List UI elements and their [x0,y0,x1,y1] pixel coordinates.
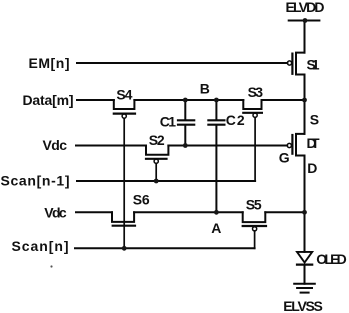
wire Scan[n-1] row [77,180,255,182]
node Scan[n] gate junction [122,246,127,251]
svg-text:S1: S1 [307,57,320,73]
wire gate line S3 to Scan[n-1] [254,117,256,181]
wire right column [304,21,306,284]
svg-text:ELVDD: ELVDD [286,0,325,15]
node B junction [214,98,219,103]
wire gate line S5 to Scan[n] [254,231,256,248]
wire Vdc2/A row [76,211,305,213]
transistor S3 [243,100,262,117]
svg-text:Scan[n-1]: Scan[n-1] [1,173,70,189]
ground ELVSS symbol [294,284,315,293]
svg-text:S5: S5 [246,197,262,213]
wire Vdc1/G row [76,145,287,147]
svg-text:Scan[n]: Scan[n] [12,238,69,254]
speck artifact [50,265,52,267]
svg-text:S2: S2 [149,132,165,148]
svg-text:B: B [200,81,210,97]
wire Data[m]/B row [77,99,305,101]
svg-text:Data[m]: Data[m] [23,92,74,108]
svg-text:A: A [211,220,221,236]
svg-text:Vdc: Vdc [44,205,67,221]
wire gate line S4/S6 to Scan[n] [123,118,125,248]
svg-text:Vdc: Vdc [43,137,68,153]
transistor S5 [243,212,266,231]
wire EM[n] row [77,62,287,64]
svg-text:C2: C2 [226,112,245,128]
capacitor C1 [178,100,194,146]
node A junction [214,210,219,215]
transistor S1 [287,53,304,75]
svg-text:C1: C1 [160,113,177,129]
svg-text:S4: S4 [116,87,132,103]
node ELVDD junction [303,18,308,23]
svg-text:S6: S6 [133,192,150,208]
node S (S1/DT/S3) [302,98,307,103]
wire gate line S2 to Scan[n-1] [155,163,157,181]
svg-text:EM[n]: EM[n] [29,55,70,71]
svg-text:D: D [307,160,317,176]
svg-text:ELVSS: ELVSS [283,298,323,313]
wire Scan[n] row [75,247,255,249]
svg-text:G: G [279,150,290,166]
node S2 gate junction [154,179,159,184]
transistor S2 [146,146,168,164]
transistor S4 [114,100,135,118]
capacitor C2 [208,100,224,212]
svg-text:DT: DT [307,135,320,151]
ELVDD power rail [289,20,320,22]
svg-text:S: S [310,112,319,128]
node C1 top [183,98,188,103]
svg-text:OLED: OLED [316,251,347,267]
node C1 bottom [183,143,188,148]
svg-text:S3: S3 [248,84,264,100]
node D junction [302,210,307,215]
transistor DT [287,134,304,156]
transistor S6 [112,212,135,225]
diode OLED [297,252,312,265]
